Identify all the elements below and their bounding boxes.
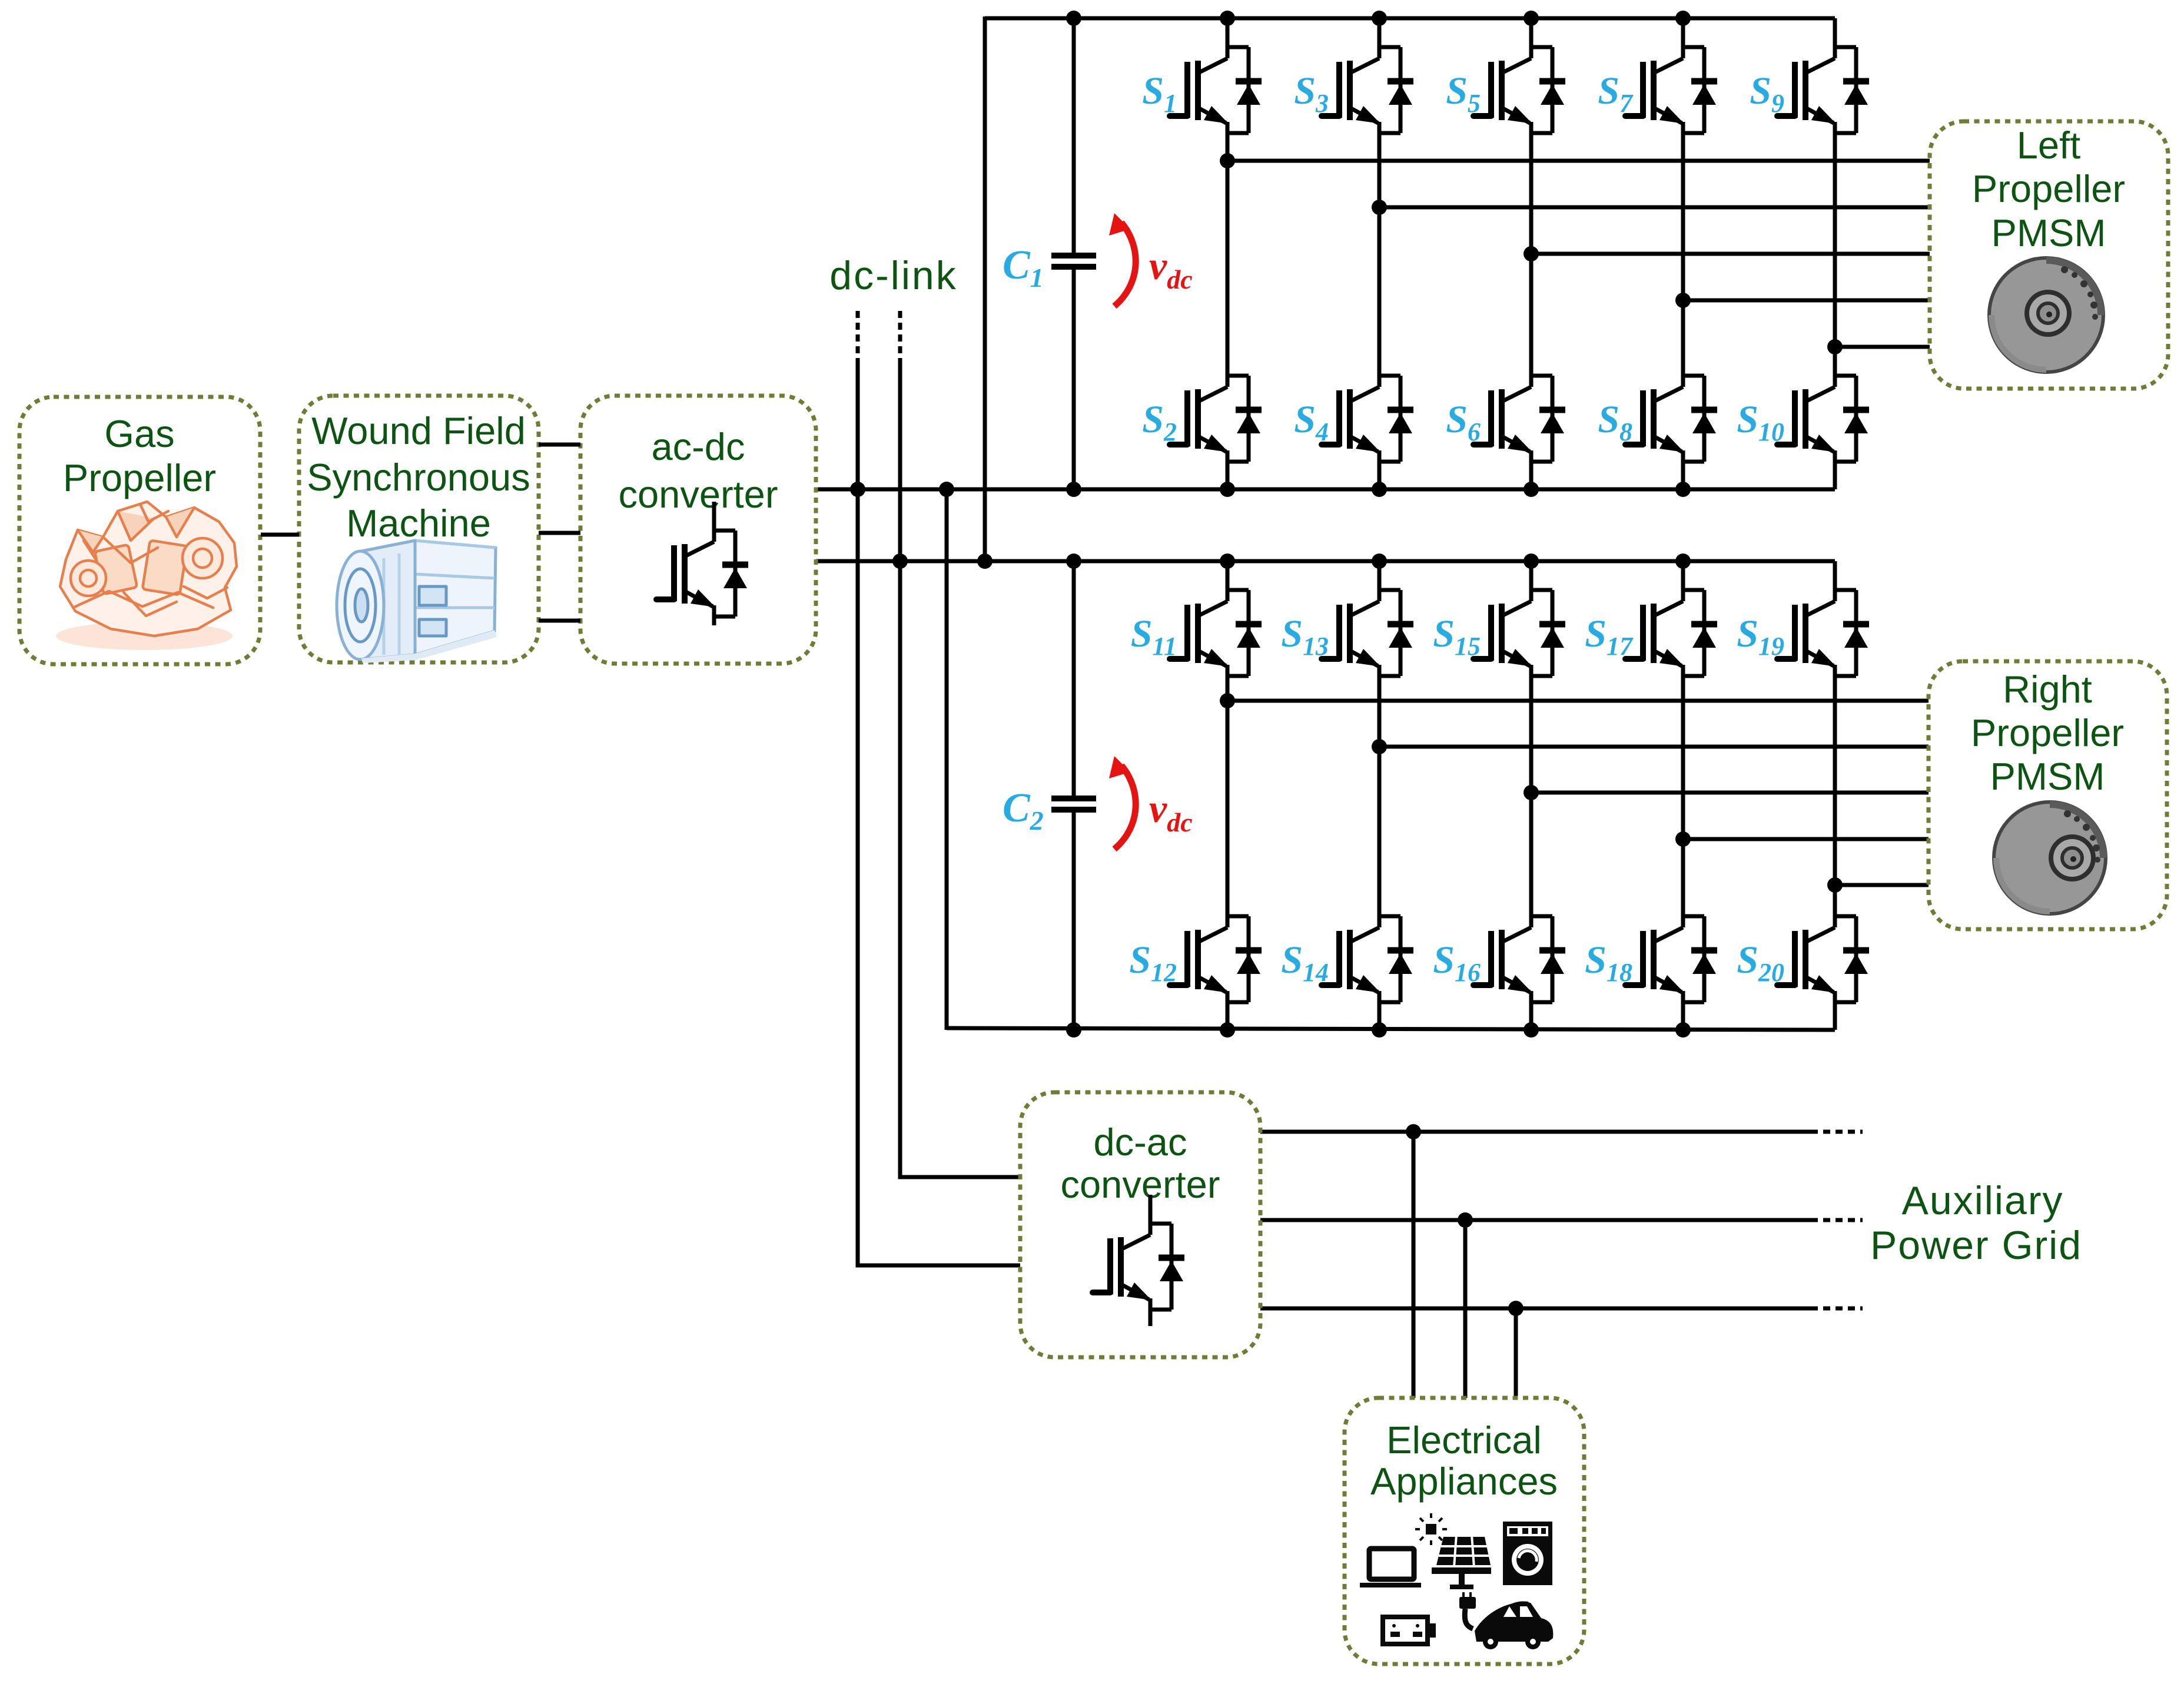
wire WFSM phase b to ac-dc converter	[539, 531, 580, 535]
svg-text:Propeller: Propeller	[63, 456, 216, 499]
node positive rail leg 4 (bottom inverter)	[1675, 554, 1691, 569]
wire drop to appliances 2	[1463, 1220, 1468, 1398]
transistor S14	[1322, 887, 1413, 1002]
wire leg 5 midpoint (bottom inverter)	[1833, 676, 1837, 887]
wire phase 3 to right PMSM	[1531, 791, 1929, 795]
wire dc-link bus 2 (dashed stub)	[898, 311, 902, 358]
node phase 5 (bottom inverter)	[1827, 877, 1843, 893]
node top rail leg 2	[1372, 11, 1387, 26]
icon battery	[1383, 1617, 1436, 1644]
svg-text:Synchronous: Synchronous	[307, 456, 530, 499]
node negative rail leg 4	[1675, 482, 1691, 497]
transistor S11	[1170, 561, 1262, 676]
node positive rail leg 1 (bottom inverter)	[1220, 554, 1235, 569]
node riser on positive bus	[977, 554, 993, 569]
wire negative bus rail A	[816, 488, 1835, 492]
image left propeller fan	[1989, 258, 2103, 372]
wire leg 3 midpoint (top inverter)	[1529, 133, 1534, 347]
wire phase 1 to right PMSM	[1227, 699, 1929, 703]
transistor S12	[1170, 887, 1262, 1002]
wire dc-link bus 1 (dashed stub)	[856, 311, 860, 358]
wire dc-link bus 1	[858, 358, 1020, 1265]
wire phase 4 to right PMSM	[1683, 837, 1929, 841]
transistor inside dc-ac converter	[1093, 1195, 1184, 1326]
wire riser from top rail to positive bus	[983, 16, 987, 561]
wire S4 emitter to negative rail	[1378, 462, 1382, 489]
block dc-ac converter	[1020, 1092, 1260, 1357]
node phase 2 (top inverter)	[1372, 200, 1387, 215]
svg-text:Power Grid: Power Grid	[1870, 1223, 2082, 1268]
node C1 top	[1066, 11, 1081, 26]
svg-text:Propeller: Propeller	[1972, 167, 2125, 210]
wire S2 emitter to negative rail	[1226, 462, 1230, 489]
transistor S20	[1777, 887, 1869, 1002]
wire WFSM phase a to ac-dc converter	[539, 443, 580, 447]
icon laptop	[1360, 1549, 1421, 1587]
transistor S18	[1625, 887, 1717, 1002]
transistor S7	[1625, 18, 1717, 133]
svg-text:Electrical: Electrical	[1386, 1418, 1542, 1461]
node positive rail leg 3 (bottom inverter)	[1524, 554, 1539, 569]
wire shaft Gas Propeller to WFSM	[261, 533, 299, 537]
node negative rail leg 1	[1220, 482, 1235, 497]
wire auxiliary grid phase 3 dashed end	[1823, 1307, 1863, 1311]
wire auxiliary grid phase 1	[1260, 1130, 1818, 1134]
wire S12 emitter to negative rail	[1226, 1002, 1230, 1030]
wire bottom inverter negative rail	[947, 1028, 1835, 1030]
node negative rail leg 4 (bottom inverter)	[1675, 1022, 1691, 1038]
wire drop to appliances 1	[1412, 1132, 1416, 1398]
node phase 1 (bottom inverter)	[1220, 693, 1235, 708]
node positive rail leg 2 (bottom inverter)	[1372, 554, 1387, 569]
transistor S9	[1777, 18, 1869, 133]
op-amp none / IGBT symbol inside ac-dc converter	[656, 502, 748, 625]
wire S6 emitter to negative rail	[1529, 462, 1534, 489]
wire S18 emitter to negative rail	[1681, 1002, 1685, 1030]
transistor S13	[1322, 561, 1413, 676]
svg-text:Auxiliary: Auxiliary	[1902, 1178, 2064, 1223]
node phase 4 (top inverter)	[1675, 293, 1691, 308]
transistor S6	[1473, 347, 1565, 462]
block Right Propeller PMSM	[1929, 661, 2167, 929]
svg-text:ac-dc: ac-dc	[652, 425, 745, 468]
icon electric car with charger	[1459, 1592, 1553, 1649]
transistor S2	[1170, 347, 1262, 462]
vdc voltage arrow 2	[1109, 756, 1193, 849]
wire S16 emitter to negative rail	[1529, 1002, 1534, 1030]
wire auxiliary grid phase 3	[1260, 1307, 1818, 1311]
block Left Propeller PMSM	[1930, 121, 2168, 389]
node negative rail leg 1 (bottom inverter)	[1220, 1022, 1235, 1038]
wire leg 3 midpoint (bottom inverter)	[1529, 676, 1534, 887]
wire phase 1 to left PMSM	[1227, 159, 1930, 163]
svg-text:Left: Left	[2017, 124, 2080, 167]
wire leg 2 midpoint (top inverter)	[1378, 133, 1382, 347]
wire WFSM phase c to ac-dc converter	[539, 619, 580, 623]
wire auxiliary grid phase 2 dashed end	[1823, 1218, 1863, 1222]
wire S10 emitter to negative rail	[1833, 462, 1837, 489]
wire S8 emitter to negative rail	[1681, 462, 1685, 489]
image wound field synchronous generator sketch	[337, 541, 497, 663]
svg-text:dc-ac: dc-ac	[1094, 1121, 1187, 1164]
image gas engine sketch	[56, 502, 237, 650]
svg-text:Propeller: Propeller	[1971, 711, 2124, 754]
transistor S1	[1170, 18, 1262, 133]
wire auxiliary grid phase 1 dashed end	[1823, 1130, 1863, 1134]
wire phase 2 to left PMSM	[1379, 206, 1930, 210]
wire leg 2 midpoint (bottom inverter)	[1378, 676, 1382, 887]
wire top inverter positive rail	[985, 16, 1835, 21]
svg-text:Right: Right	[2003, 668, 2092, 711]
transistor S8	[1625, 347, 1717, 462]
node dc-link 1 tap on rail A	[850, 482, 865, 497]
wire phase 3 to left PMSM	[1531, 252, 1930, 256]
wire auxiliary grid phase 2	[1260, 1218, 1818, 1222]
svg-text:converter: converter	[619, 473, 778, 516]
node negative rail leg 2	[1372, 482, 1387, 497]
svg-text:dc-link: dc-link	[829, 253, 958, 298]
transistor S4	[1322, 347, 1413, 462]
wire leg 4 midpoint (top inverter)	[1681, 133, 1685, 347]
block ac-dc converter	[580, 396, 816, 664]
node phase 5 (top inverter)	[1827, 339, 1843, 354]
svg-text:PMSM: PMSM	[1990, 755, 2105, 798]
wire riser negative bus to bottom inverter	[945, 489, 949, 1030]
transistor S3	[1322, 18, 1413, 133]
svg-text:Gas: Gas	[104, 412, 174, 455]
block Electrical Appliances	[1345, 1398, 1584, 1664]
node negative rail leg 3	[1524, 482, 1539, 497]
node C2 top	[1066, 554, 1081, 569]
block Gas Propeller	[19, 397, 260, 664]
svg-text:Machine: Machine	[346, 502, 491, 545]
icon solar panel	[1432, 1534, 1491, 1589]
wire S14 emitter to negative rail	[1378, 1002, 1382, 1030]
wire phase 5 to left PMSM	[1835, 345, 1930, 349]
wire positive bus rail B	[816, 559, 1835, 564]
node top rail leg 1	[1220, 11, 1235, 26]
wire phase 4 to left PMSM	[1683, 299, 1930, 303]
wire phase 2 to right PMSM	[1379, 745, 1929, 749]
wire leg 1 midpoint (top inverter)	[1226, 133, 1230, 347]
transistor S5	[1473, 18, 1565, 133]
node riser on negative bus	[939, 482, 954, 497]
wire dc-link bus 2	[900, 358, 1020, 1177]
node C2 bottom	[1066, 1022, 1081, 1038]
transistor S19	[1777, 561, 1869, 676]
node negative rail leg 2 (bottom inverter)	[1372, 1022, 1387, 1038]
node top rail leg 3	[1524, 11, 1539, 26]
capacitor C1	[1003, 18, 1096, 489]
node phase 1 (top inverter)	[1220, 153, 1235, 168]
node top rail leg 4	[1675, 11, 1691, 26]
icon sun	[1415, 1513, 1447, 1545]
wire S20 emitter to negative rail	[1833, 1002, 1837, 1030]
node aux grid tap 3	[1508, 1301, 1524, 1316]
node phase 3 (top inverter)	[1524, 246, 1539, 261]
node negative rail leg 3 (bottom inverter)	[1524, 1022, 1539, 1038]
node phase 3 (bottom inverter)	[1524, 785, 1539, 800]
transistor S15	[1473, 561, 1565, 676]
svg-text:Wound Field: Wound Field	[311, 409, 526, 452]
wire leg 5 midpoint (top inverter)	[1833, 133, 1837, 347]
node aux grid tap 2	[1458, 1212, 1473, 1228]
transistor S17	[1625, 561, 1717, 676]
svg-text:Appliances: Appliances	[1370, 1460, 1558, 1503]
node phase 4 (bottom inverter)	[1675, 831, 1691, 847]
wire leg 1 midpoint (bottom inverter)	[1226, 676, 1230, 887]
transistor S10	[1777, 347, 1869, 462]
image right propeller fan	[1994, 802, 2106, 914]
wire leg 4 midpoint (bottom inverter)	[1681, 676, 1685, 887]
wire drop to appliances 3	[1514, 1308, 1518, 1398]
svg-text:PMSM: PMSM	[1992, 211, 2106, 254]
node phase 2 (bottom inverter)	[1372, 739, 1387, 754]
icon washing machine	[1503, 1522, 1552, 1585]
node dc-link 2 tap on rail B	[892, 554, 908, 569]
svg-text:converter: converter	[1061, 1163, 1220, 1206]
vdc voltage arrow 1	[1109, 213, 1193, 306]
capacitor C2	[1003, 561, 1096, 1030]
node C1 bottom	[1066, 482, 1081, 497]
wire phase 5 to right PMSM	[1835, 883, 1929, 887]
block Wound Field Synchronous Machine	[299, 396, 539, 662]
transistor S16	[1473, 887, 1565, 1002]
node aux grid tap 1	[1406, 1124, 1421, 1139]
